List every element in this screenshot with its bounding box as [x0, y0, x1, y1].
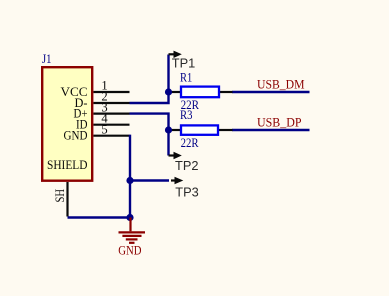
- svg-text:TP3: TP3: [175, 184, 198, 199]
- svg-text:GND: GND: [118, 243, 141, 257]
- svg-text:TP2: TP2: [175, 158, 198, 173]
- svg-text:R1: R1: [180, 71, 192, 85]
- svg-text:TP1: TP1: [172, 56, 195, 71]
- svg-text:R3: R3: [180, 108, 193, 122]
- svg-text:5: 5: [101, 122, 107, 136]
- svg-text:SH: SH: [53, 189, 67, 203]
- svg-text:GND: GND: [64, 129, 88, 143]
- svg-text:USB_DM: USB_DM: [257, 77, 305, 91]
- svg-text:J1: J1: [42, 51, 52, 66]
- svg-text:USB_DP: USB_DP: [257, 115, 302, 129]
- svg-text:22R: 22R: [181, 136, 199, 150]
- svg-text:SHIELD: SHIELD: [47, 158, 88, 172]
